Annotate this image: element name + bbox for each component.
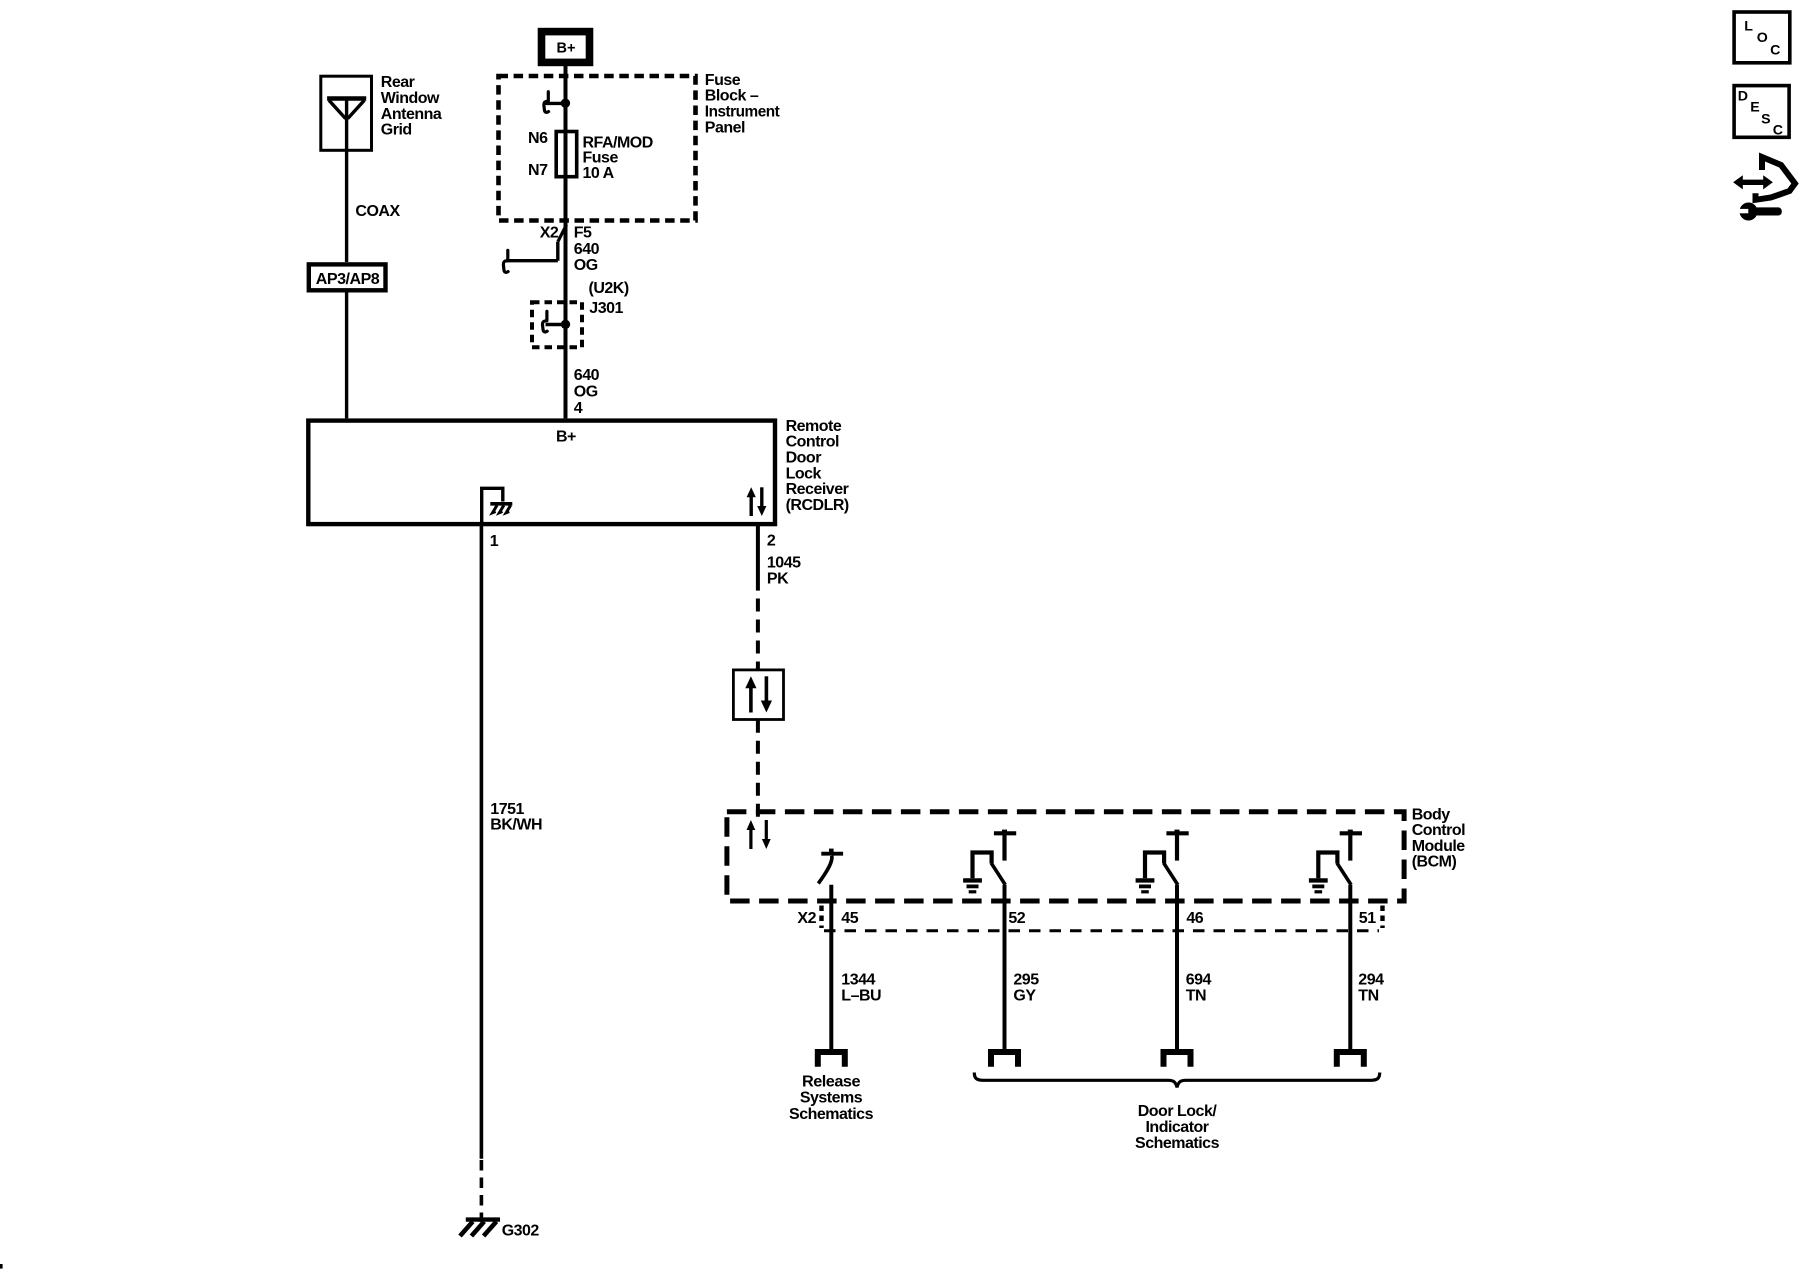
svg-text:C: C <box>1770 43 1780 59</box>
svg-text:2: 2 <box>767 533 776 550</box>
svg-text:(RCDLR): (RCDLR) <box>786 497 849 514</box>
svg-text:(U2K): (U2K) <box>589 280 629 297</box>
svg-text:4: 4 <box>574 400 583 417</box>
svg-text:X2: X2 <box>540 224 559 241</box>
svg-text:Window: Window <box>381 90 440 107</box>
svg-text:PK: PK <box>767 570 789 587</box>
svg-text:Grid: Grid <box>381 122 412 139</box>
svg-text:F5: F5 <box>574 224 592 241</box>
svg-text:1344: 1344 <box>841 972 875 989</box>
svg-text:AP3/AP8: AP3/AP8 <box>316 271 380 288</box>
svg-text:Release: Release <box>802 1073 861 1090</box>
svg-text:45: 45 <box>841 910 858 927</box>
svg-text:TN: TN <box>1186 987 1206 1004</box>
svg-text:295: 295 <box>1013 972 1039 989</box>
svg-text:COAX: COAX <box>355 203 400 220</box>
svg-text:Lock: Lock <box>786 465 822 482</box>
svg-text:Module: Module <box>1412 838 1466 855</box>
svg-text:Indicator: Indicator <box>1145 1119 1208 1136</box>
svg-text:O: O <box>1757 30 1768 46</box>
svg-text:Systems: Systems <box>800 1090 863 1107</box>
svg-text:Rear: Rear <box>381 74 415 91</box>
svg-text:X2: X2 <box>797 910 816 927</box>
svg-text:(BCM): (BCM) <box>1412 854 1457 871</box>
svg-text:N7: N7 <box>528 162 548 179</box>
svg-text:1: 1 <box>490 533 499 550</box>
svg-text:Panel: Panel <box>705 119 745 136</box>
svg-text:BK/WH: BK/WH <box>490 817 542 834</box>
svg-text:Block –: Block – <box>705 88 759 105</box>
svg-text:J301: J301 <box>589 300 623 317</box>
svg-text:294: 294 <box>1358 972 1384 989</box>
svg-text:640: 640 <box>574 241 600 258</box>
svg-text:OG: OG <box>574 257 598 274</box>
svg-text:B+: B+ <box>556 429 576 446</box>
svg-text:Fuse: Fuse <box>705 72 741 89</box>
svg-text:Remote: Remote <box>786 418 842 435</box>
svg-text:Control: Control <box>786 434 839 451</box>
svg-text:L–BU: L–BU <box>841 987 881 1004</box>
svg-text:Door Lock/: Door Lock/ <box>1138 1103 1218 1120</box>
svg-text:S: S <box>1761 111 1770 127</box>
svg-text:51: 51 <box>1359 910 1376 927</box>
svg-text:B+: B+ <box>557 41 576 57</box>
svg-text:10 A: 10 A <box>583 165 615 182</box>
svg-text:Body: Body <box>1412 806 1451 823</box>
svg-text:1751: 1751 <box>490 801 524 818</box>
svg-text:L: L <box>1744 18 1753 34</box>
svg-text:Schematics: Schematics <box>789 1106 874 1123</box>
svg-text:TN: TN <box>1358 987 1378 1004</box>
svg-text:G302: G302 <box>502 1222 540 1239</box>
svg-text:Receiver: Receiver <box>786 481 849 498</box>
svg-text:1045: 1045 <box>767 555 801 572</box>
svg-text:Control: Control <box>1412 822 1465 839</box>
svg-text:52: 52 <box>1008 910 1025 927</box>
svg-text:OG: OG <box>574 384 598 401</box>
svg-text:Antenna: Antenna <box>381 106 442 123</box>
svg-text:E: E <box>1750 99 1759 115</box>
svg-text:GY: GY <box>1013 987 1036 1004</box>
svg-text:Schematics: Schematics <box>1135 1135 1220 1152</box>
svg-text:46: 46 <box>1186 910 1203 927</box>
svg-text:D: D <box>1738 89 1748 105</box>
svg-text:694: 694 <box>1186 972 1212 989</box>
svg-text:Door: Door <box>786 450 822 467</box>
svg-text:N6: N6 <box>528 130 548 147</box>
svg-text:640: 640 <box>574 367 600 384</box>
svg-text:C: C <box>1773 123 1783 139</box>
svg-text:Instrument: Instrument <box>705 104 781 121</box>
